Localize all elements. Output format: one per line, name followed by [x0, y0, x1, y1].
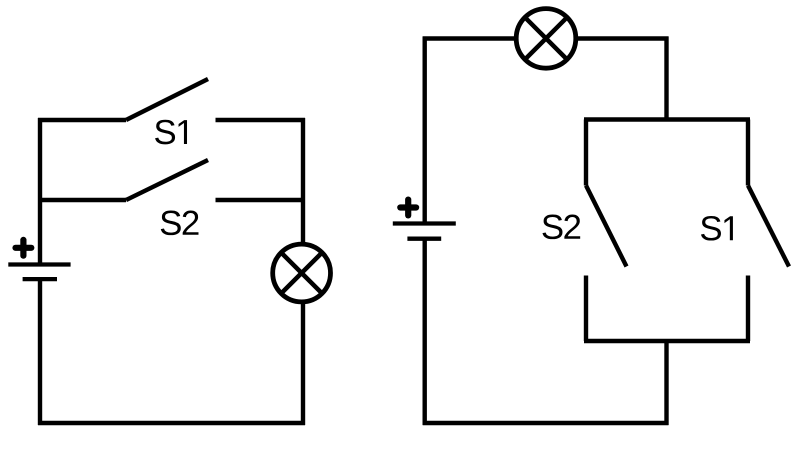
wire right-circuit parallel bottom bar — [584, 339, 750, 343]
wire left-circuit right vertical lower — [301, 302, 305, 425]
switch S2 blade (right circuit) — [586, 186, 627, 267]
lamp L1 (left circuit) — [273, 244, 331, 302]
wire left-circuit right vertical upper — [301, 118, 305, 244]
battery B1 short plate — [23, 277, 57, 281]
wire left-circuit left vertical (top section) — [38, 118, 42, 265]
wire S2 upper contact vertical (right circuit) — [584, 120, 588, 186]
wire right-circuit top segment left of lamp — [423, 36, 516, 40]
battery B2 long plate — [393, 221, 456, 225]
lamp L2 (right circuit) — [516, 9, 576, 69]
switch S2 blade (left circuit) — [126, 160, 208, 200]
wire left-circuit left vertical lower — [38, 279, 42, 425]
battery B2 plus sign — [400, 200, 416, 216]
wire S2 lower contact vertical (right circuit) — [584, 276, 588, 342]
battery B1 plus sign — [16, 240, 32, 256]
wire right-circuit parallel top bar — [584, 117, 750, 121]
battery B2 short plate — [407, 237, 441, 241]
wire left-circuit bottom — [38, 421, 305, 425]
label S1 (right circuit) — [701, 216, 733, 241]
label S2 (left circuit) — [161, 211, 199, 236]
battery B1 long plate — [8, 262, 70, 266]
wire left-circuit S2 branch left segment — [38, 198, 126, 202]
wire right-circuit left vertical lower — [423, 239, 427, 425]
wire left-circuit S1 branch right stub — [216, 118, 306, 122]
wire left-circuit S1 branch left segment — [38, 118, 126, 122]
label S1 (left circuit) — [155, 120, 187, 145]
battery B2 (right circuit) — [393, 200, 456, 239]
wire right-circuit bottom — [423, 421, 669, 425]
wire right-circuit left vertical upper — [423, 37, 427, 224]
label S2 (right circuit) — [542, 215, 580, 240]
wire S1 lower contact vertical (right circuit) — [746, 276, 750, 342]
wire S1 upper contact vertical (right circuit) — [746, 120, 750, 186]
wire left-circuit S2 branch right stub — [216, 198, 306, 202]
wire right-circuit center vertical lower — [664, 339, 668, 425]
battery B1 (left circuit) — [8, 240, 70, 279]
switch S1 blade (right circuit) — [748, 186, 789, 267]
wire right-circuit upper right vertical — [664, 37, 668, 122]
switch S1 blade (left circuit) — [126, 79, 208, 120]
wire right-circuit top segment right of lamp — [576, 36, 669, 40]
